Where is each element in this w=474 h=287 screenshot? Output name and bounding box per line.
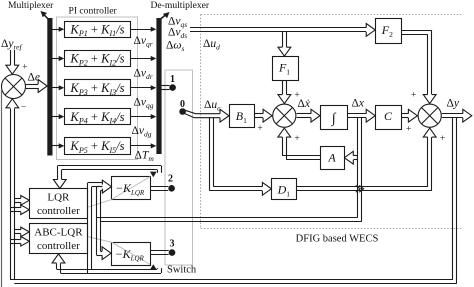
wire D1 to S3 bottom xyxy=(296,128,436,191)
switch wiper triangle at -K_LQR 2 xyxy=(150,264,157,270)
wire A to S2 bottom xyxy=(278,128,320,160)
svg-text:KP1 + KI1/s: KP1 + KI1/s xyxy=(69,22,124,38)
plus sign at S2 top input xyxy=(294,91,299,101)
svg-text:KP3 + KI3/s: KP3 + KI3/s xyxy=(69,81,124,97)
gray callout diagonal for -K_LQR 1 xyxy=(87,177,150,208)
svg-text:KP2 + KI2/s: KP2 + KI2/s xyxy=(69,52,124,68)
svg-text:LQR: LQR xyxy=(47,192,70,204)
switch pole 0 xyxy=(179,99,186,115)
ABC-LQR controller box xyxy=(30,224,88,254)
svg-text:KP5 + KI5/s: KP5 + KI5/s xyxy=(69,139,124,155)
wire Δu_c branch down to D1 xyxy=(210,118,272,196)
left edge artifact line xyxy=(1,90,3,287)
PI box 4 (K_P4 + K_I4/s) xyxy=(65,109,131,126)
wire branch Δu_d down into F1 xyxy=(278,32,291,56)
label Δv_qg xyxy=(134,97,154,111)
demultiplexer bar xyxy=(156,18,161,154)
minus sign at S1 feedback input xyxy=(21,103,26,113)
svg-text:PI controller: PI controller xyxy=(69,6,118,17)
wire Δu_d from demultiplexer to F2 xyxy=(190,24,375,37)
svg-text:Multiplexer: Multiplexer xyxy=(8,0,54,11)
svg-text:3: 3 xyxy=(170,239,175,250)
PI box 5 (K_P5 + K_I5/s) xyxy=(65,138,131,155)
svg-text:controller: controller xyxy=(37,240,80,252)
PI controller group frame (gray) xyxy=(57,17,138,160)
wire integrator to C (Δx) xyxy=(348,109,375,122)
summing junction S1 xyxy=(2,75,26,99)
wire multiplexer to PI box 1 xyxy=(53,27,65,32)
plus sign at S3 bottom input xyxy=(440,134,445,144)
wire multiplexer to PI box 2 xyxy=(53,56,65,61)
wire multiplexer to PI box 5 xyxy=(53,143,65,148)
wire multiplexer to PI box 3 xyxy=(53,85,65,90)
wire S3 output Δy xyxy=(442,109,472,122)
plus sign at S2 bottom input xyxy=(294,134,299,144)
switch contact 3 xyxy=(150,239,175,256)
svg-text:ABC-LQR: ABC-LQR xyxy=(34,227,83,239)
wire PI box 2 to demultiplexer xyxy=(131,56,157,61)
wire switch arm to LQR controller top xyxy=(53,166,161,189)
wire switch pole to B1 xyxy=(184,109,229,122)
summing junction S2 xyxy=(273,104,296,127)
label Δẋ xyxy=(298,98,311,110)
wire Δx into A xyxy=(344,151,357,164)
wire F1 to S2 top xyxy=(278,80,291,104)
PI box 3 (K_P3 + K_I3/s) xyxy=(65,80,131,97)
wire C to S3 xyxy=(401,109,417,122)
DFIG based WECS dotted frame xyxy=(201,15,462,229)
svg-text:De-multiplexer: De-multiplexer xyxy=(151,0,210,11)
label Δv_ds xyxy=(168,27,187,41)
svg-text:Δẋ: Δẋ xyxy=(298,98,311,110)
svg-text:+: + xyxy=(411,91,416,101)
gray callout diagonal for -K_LQR 2 xyxy=(87,237,150,265)
svg-text:+: + xyxy=(440,134,445,144)
block integrator xyxy=(321,106,348,130)
svg-text:Δx: Δx xyxy=(352,98,365,110)
block B1 xyxy=(230,105,255,128)
switch contact 1 xyxy=(162,74,176,91)
svg-text:C: C xyxy=(384,109,393,123)
pointer arrow from multiplexer bar to Multiplexer label xyxy=(40,11,49,21)
LQR controller box xyxy=(30,189,88,219)
multiplexer bar xyxy=(47,18,52,156)
label Multiplexer xyxy=(8,0,54,11)
label Δω_s xyxy=(166,40,185,54)
svg-text:−: − xyxy=(21,103,26,113)
summing junction S3 xyxy=(418,104,441,127)
wire PI box 4 to demultiplexer xyxy=(131,114,157,119)
wire Δy feedback down and along bottom xyxy=(10,118,457,284)
block A xyxy=(321,147,345,170)
svg-text:controller: controller xyxy=(37,205,80,217)
wire VB vertical feeding -K_LQR inputs xyxy=(97,180,112,259)
svg-text:2: 2 xyxy=(168,174,173,185)
plus sign at S2 left input xyxy=(257,124,262,134)
label node Δy_ref xyxy=(1,38,22,52)
label Δu_d xyxy=(203,38,220,52)
block F1 xyxy=(273,57,299,81)
wire B1 to S2 xyxy=(254,109,272,122)
label DFIG based WECS xyxy=(296,234,379,245)
wire switch arm to ABC-LQR controller bottom xyxy=(52,254,161,274)
switch contact 2 xyxy=(151,174,175,192)
block F2 xyxy=(376,19,402,44)
label Δy xyxy=(447,98,460,110)
wire Δe from S1 to multiplexer xyxy=(26,80,47,93)
svg-text:DFIG based WECS: DFIG based WECS xyxy=(296,234,379,245)
switch wiper triangle at -K_LQR 1 xyxy=(150,172,157,178)
gain block -K_LQR 1 xyxy=(112,177,151,200)
wire Δy_ref input into S1 xyxy=(6,50,19,74)
label Δu_c xyxy=(204,99,221,113)
wire multiplexer to PI box 4 xyxy=(53,114,65,119)
wire Δx run to -K_LQR via VB xyxy=(97,218,362,222)
gain block -K_LQR 1 label xyxy=(116,181,145,197)
block C xyxy=(376,106,402,130)
block D1 xyxy=(272,179,297,200)
label PI controller xyxy=(69,6,118,17)
label Δv_dr xyxy=(134,68,153,82)
label Δv_qs xyxy=(168,16,187,30)
label Δx xyxy=(352,98,365,110)
crossover hop on D1 wire at Δx line xyxy=(356,185,364,192)
wire S2 to integrator (Δẋ) xyxy=(297,109,320,122)
wire PI box 3 to demultiplexer xyxy=(131,85,157,90)
svg-text:+: + xyxy=(294,134,299,144)
svg-text:+: + xyxy=(406,125,411,135)
plus sign at S3 left input xyxy=(406,125,411,135)
label Switch xyxy=(167,265,197,276)
label ΔT_m xyxy=(135,150,155,164)
label Δe xyxy=(28,72,41,84)
wire PI box 1 to demultiplexer xyxy=(131,27,157,32)
PI box 1 (K_P1 + K_I1/s) xyxy=(65,22,131,39)
wire left edge up to S1 and controller inputs xyxy=(0,0,1,1)
wire PI box 5 to demultiplexer xyxy=(131,143,157,148)
svg-text:KP4 + KI4/s: KP4 + KI4/s xyxy=(69,110,124,126)
PI box 2 (K_P2 + K_I2/s) xyxy=(65,51,131,68)
svg-text:+: + xyxy=(257,124,262,134)
svg-text:1: 1 xyxy=(170,74,175,85)
wire into LQR controller input a xyxy=(14,196,29,206)
wire into ABC-LQR controller input a xyxy=(14,227,29,237)
label Δv_dg xyxy=(132,125,152,139)
gain block -K_LQR 2 xyxy=(112,243,151,266)
plus sign at S3 top input xyxy=(411,91,416,101)
plus sign at S1 reference input xyxy=(22,63,27,73)
pointer arrow from demultiplexer bar to De-multiplexer label xyxy=(159,12,170,21)
label De-multiplexer xyxy=(151,0,210,11)
gain block -K_LQR 2 label xyxy=(116,247,145,263)
label Δv_qr xyxy=(134,35,153,49)
svg-text:Switch: Switch xyxy=(167,265,197,276)
svg-text:A: A xyxy=(327,151,336,165)
wire Δy feedback into S1 bottom xyxy=(6,99,19,281)
svg-text:Δy: Δy xyxy=(447,98,460,110)
wire Δx branch down xyxy=(358,118,362,222)
wire into LQR controller input b xyxy=(10,205,29,215)
wire outer loop from bottom run to -K_LQR 1 input xyxy=(88,183,104,274)
switch group frame (gray) xyxy=(165,70,193,265)
wire into ABC-LQR controller input b xyxy=(10,237,29,247)
wire F2 to S3 top xyxy=(401,30,436,103)
